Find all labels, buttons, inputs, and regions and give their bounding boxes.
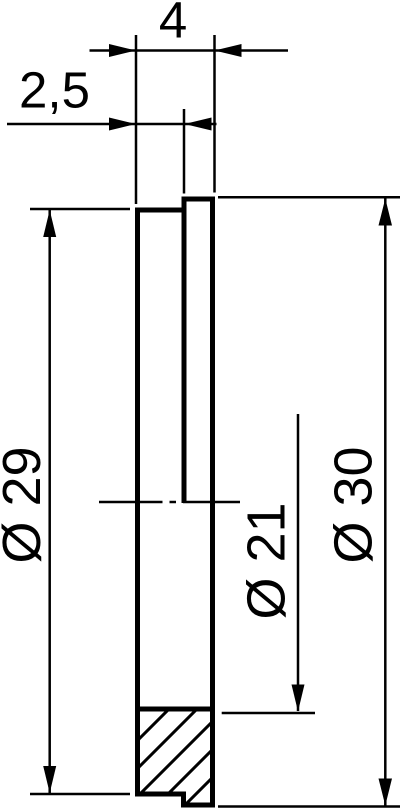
- dimension D30: bottom arrowhead: [379, 779, 393, 806]
- svg-text:2,5: 2,5: [19, 62, 90, 119]
- dimension D29: top extension line: [30, 208, 130, 211]
- svg-text:Ø 29: Ø 29: [0, 446, 52, 563]
- dimension 2,5: left arrowhead: [109, 118, 136, 131]
- dimension D29: bottom arrowhead: [43, 766, 56, 793]
- section boundary line (top of hatched area, bore line): [138, 707, 213, 712]
- dimension D21: extension line: [222, 712, 315, 715]
- extension line right of dim 4 (x=214.5): [213, 35, 216, 193]
- dimension D29: dimension line: [48, 210, 51, 793]
- inner step edge (visible lip line from top down to centerline): [182, 199, 187, 503]
- dimension 2,5: right arrowhead: [185, 118, 212, 131]
- dimension D30: top arrowhead: [379, 199, 393, 226]
- svg-text:Ø 30: Ø 30: [324, 446, 384, 563]
- svg-text:4: 4: [159, 0, 187, 49]
- dimension D29: bottom extension line: [30, 793, 130, 796]
- part outline (seal ring cross-section profile): [138, 199, 213, 805]
- dimension D21: dimension line: [297, 414, 300, 711]
- extension line left (x=136, shared by dim 4 and dim 2,5): [135, 35, 138, 204]
- centerline (dash-dot axis): [99, 501, 240, 504]
- dimension D30: top extension line: [218, 196, 400, 199]
- dimension 4: left arrowhead: [109, 44, 136, 57]
- svg-text:Ø 21: Ø 21: [237, 502, 297, 619]
- extension line right of dim 2,5 (x=184): [183, 109, 186, 194]
- dimension D21: arrowhead: [292, 685, 305, 712]
- dimension D30: dimension line: [384, 199, 387, 806]
- dimension 4: right arrowhead: [215, 44, 242, 57]
- dimension 2,5: dimension line: [7, 123, 217, 126]
- dimension D29: top arrowhead: [43, 210, 56, 237]
- dimension D30: bottom extension line: [218, 805, 400, 808]
- dimension 4: dimension line: [90, 49, 289, 52]
